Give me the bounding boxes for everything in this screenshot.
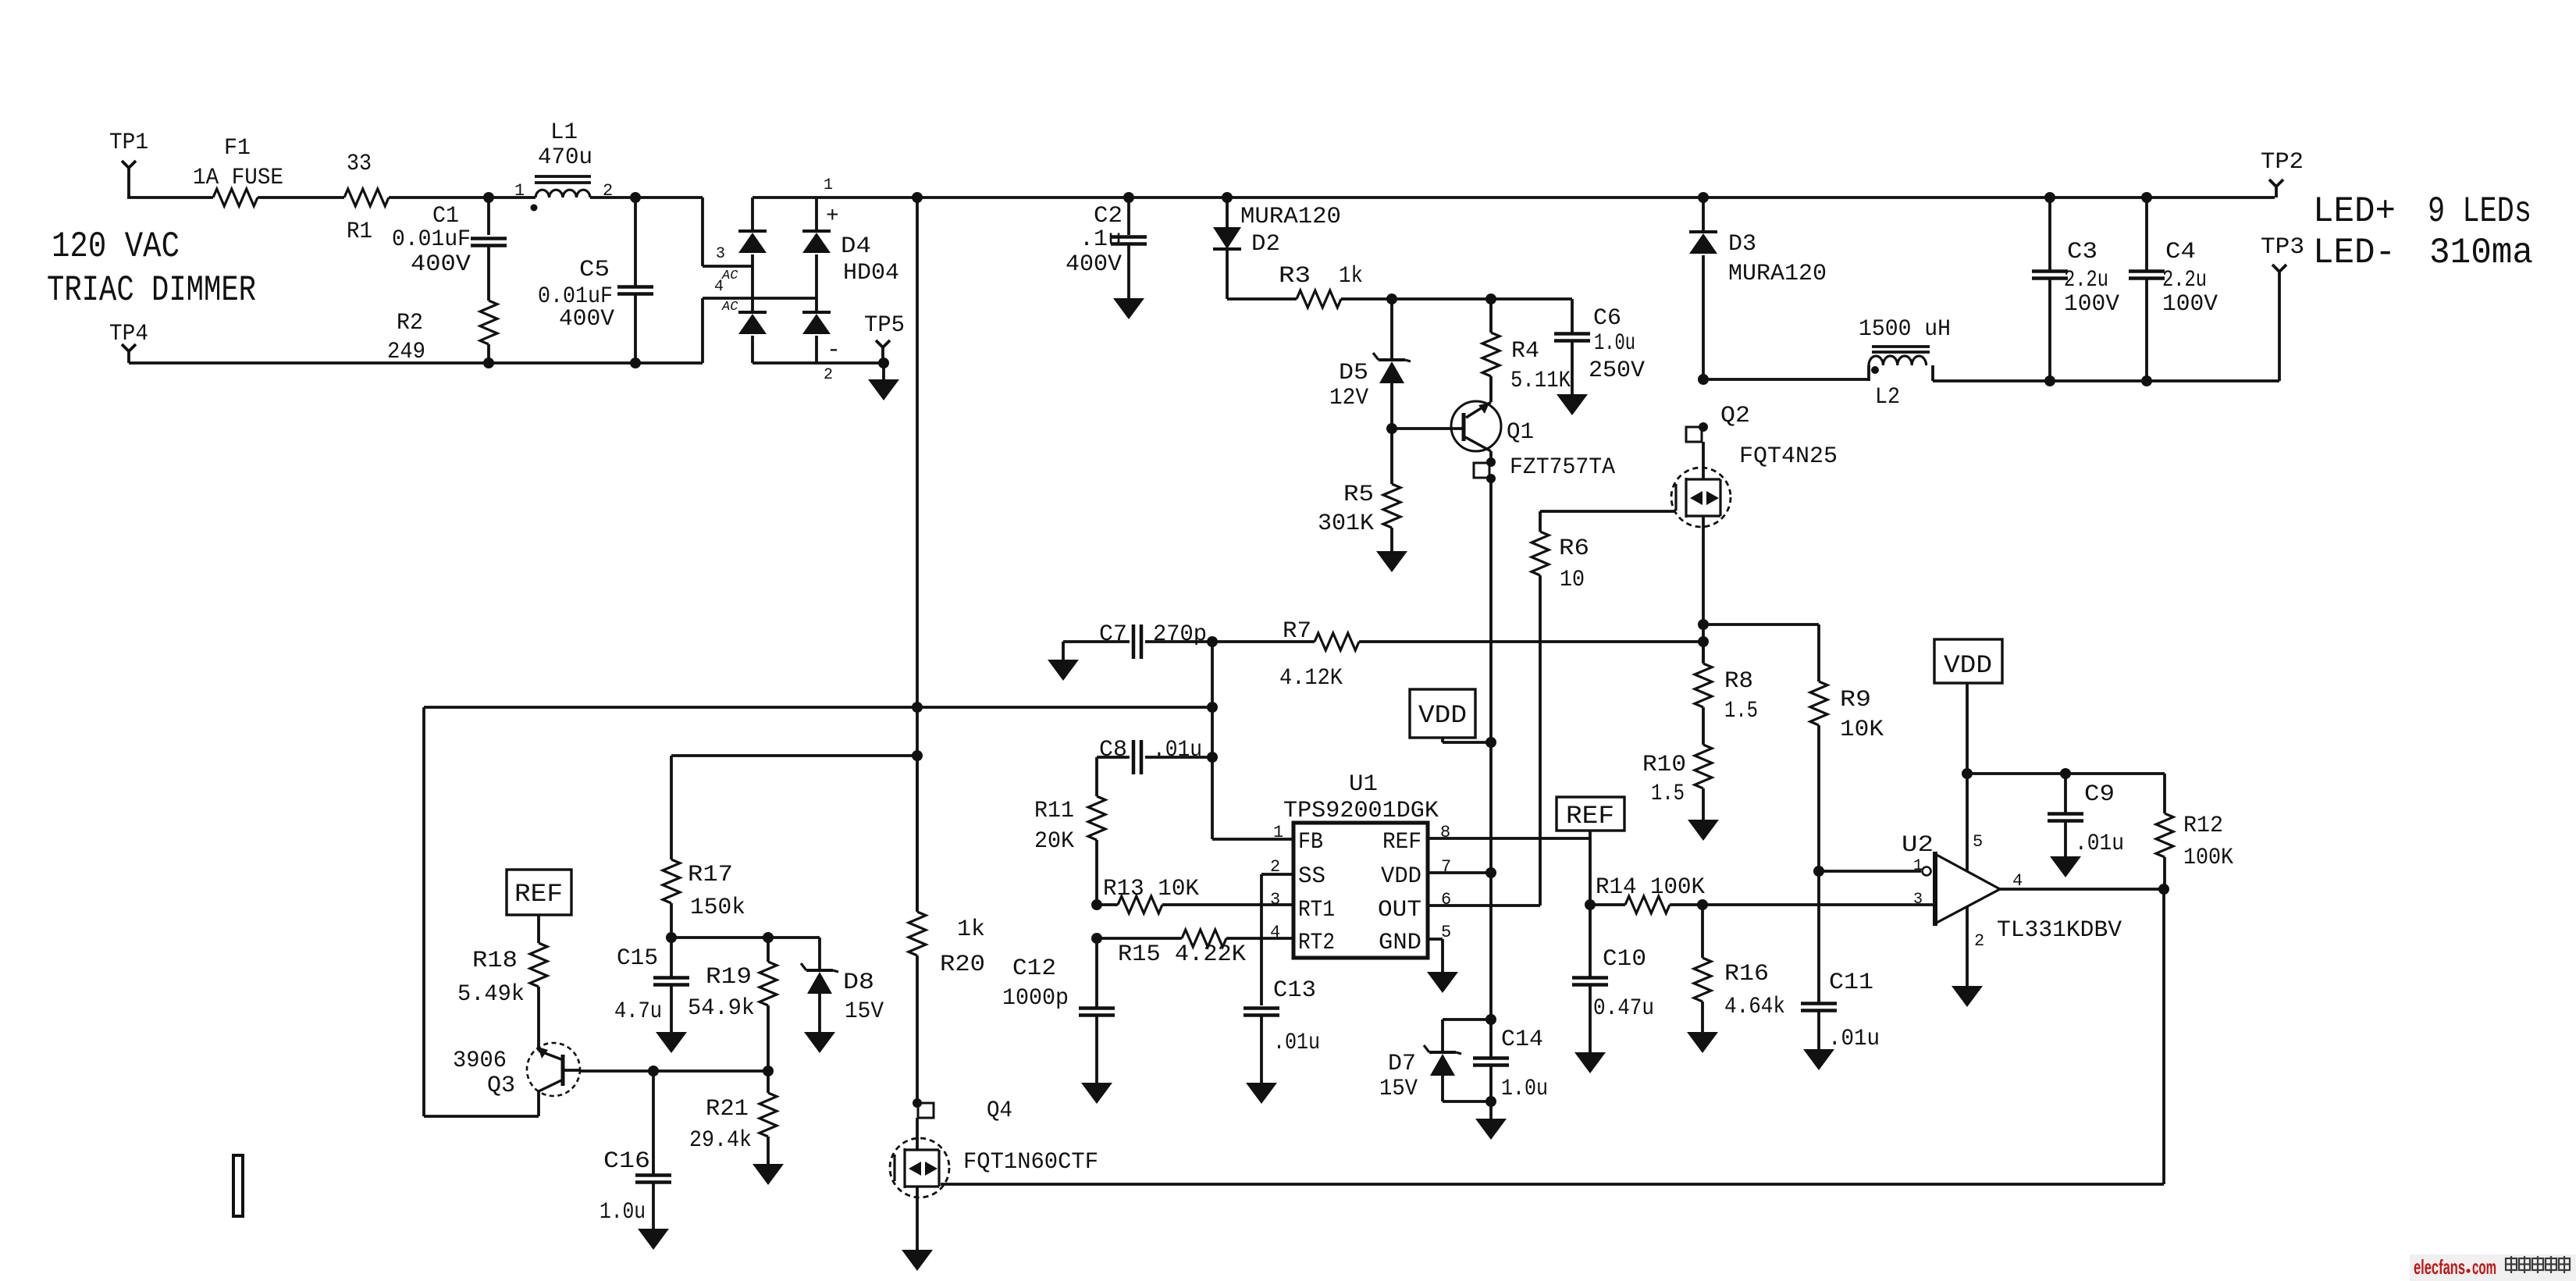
ground below C15 <box>656 1032 687 1053</box>
node FB column / long wire <box>1207 702 1218 713</box>
node D2 top rail <box>1222 192 1233 203</box>
ground below C2 <box>1113 298 1144 319</box>
svg-text:D4: D4 <box>841 233 871 260</box>
svg-text:TP4: TP4 <box>109 321 148 347</box>
svg-text:TP5: TP5 <box>864 312 905 339</box>
resistor R5 <box>1318 429 1400 551</box>
node C4 top rail <box>2141 192 2152 203</box>
test point TP4 <box>109 321 148 363</box>
svg-text:VDD: VDD <box>1418 701 1467 730</box>
wire top rail from bridge to TP2 <box>753 196 2275 199</box>
svg-text:R10: R10 <box>1642 752 1686 778</box>
svg-text:C13: C13 <box>1273 977 1316 1004</box>
svg-text:4.7u: 4.7u <box>614 998 662 1025</box>
svg-text:C11: C11 <box>1829 970 1873 996</box>
resistor R14 100K <box>1590 874 1935 913</box>
node main column / long wire <box>912 702 923 713</box>
svg-text:2.2u: 2.2u <box>2064 267 2108 294</box>
svg-text:R5: R5 <box>1343 482 1374 508</box>
test point TP3 <box>2261 234 2304 381</box>
svg-text:TPS92001DGK: TPS92001DGK <box>1283 798 1439 824</box>
svg-text:C4: C4 <box>2165 239 2196 265</box>
svg-text:Q4: Q4 <box>987 1098 1012 1124</box>
svg-text:400V: 400V <box>1066 251 1122 278</box>
svg-text:R11: R11 <box>1034 798 1074 824</box>
svg-text:FZT757TA: FZT757TA <box>1510 454 1615 481</box>
U1 pin8 REF wire <box>1428 837 1590 840</box>
svg-text:C2: C2 <box>1094 203 1123 230</box>
svg-text:TRIAC DIMMER: TRIAC DIMMER <box>47 270 256 311</box>
svg-text:5.11K: 5.11K <box>1510 368 1571 394</box>
zener diode D5 12V <box>1329 299 1411 429</box>
test point TP1 <box>109 130 148 197</box>
svg-text:10K: 10K <box>1840 717 1884 743</box>
svg-text:100V: 100V <box>2064 291 2119 318</box>
wire R17 tap <box>671 756 917 859</box>
IC U1 TPS92001DGK box <box>1283 771 1439 958</box>
ground at U1 GND <box>1427 972 1458 993</box>
svg-text:20K: 20K <box>1034 828 1074 855</box>
node Q4 gate <box>913 1098 922 1108</box>
svg-text:C12: C12 <box>1012 955 1056 982</box>
resistor R11 20K <box>1034 757 1105 905</box>
svg-text:R16: R16 <box>1724 961 1769 987</box>
svg-text:TP2: TP2 <box>2261 149 2304 176</box>
node R3 right <box>1386 294 1397 304</box>
svg-text:R13 10K: R13 10K <box>1103 876 1199 902</box>
wire R1 to L1 <box>389 196 535 199</box>
svg-text:1: 1 <box>514 181 525 201</box>
svg-text:1: 1 <box>1913 857 1923 875</box>
svg-text:R8: R8 <box>1724 668 1753 695</box>
U1 pin numbers <box>1270 823 1451 942</box>
svg-text:R1: R1 <box>347 219 372 245</box>
U2 output wire <box>2000 888 2164 891</box>
wire Q1 collector column down <box>1489 479 1493 742</box>
svg-text:REF: REF <box>514 880 563 909</box>
VDD box at U1 <box>1410 689 1491 742</box>
svg-text:C6: C6 <box>1593 305 1621 332</box>
svg-text:L2: L2 <box>1875 384 1900 411</box>
svg-text:301K: 301K <box>1318 511 1374 537</box>
svg-text:15V: 15V <box>1379 1076 1418 1102</box>
inductor L2 1500uH <box>1859 316 1951 411</box>
U2 pin2 gnd wire <box>1966 906 1969 986</box>
node main column R17 tap <box>912 750 923 761</box>
resistor R21 29.4k <box>689 1071 777 1164</box>
svg-text:D7: D7 <box>1388 1051 1416 1077</box>
fuse F1 <box>193 135 283 206</box>
svg-text:MURA120: MURA120 <box>1728 261 1827 287</box>
bridge diode D4d (lower right) <box>802 312 831 363</box>
resistor R16 4.64k <box>1694 905 1785 1032</box>
resistor R20 1k <box>909 756 985 1103</box>
svg-text:C1: C1 <box>432 203 459 230</box>
node R17 bottom <box>666 932 677 943</box>
ground below R10 <box>1688 820 1719 841</box>
wire F1 to R1 <box>258 196 344 199</box>
ground below R21 <box>753 1164 784 1185</box>
ground at TP5 <box>868 363 899 400</box>
node R16 top <box>1697 899 1708 910</box>
svg-text:1: 1 <box>1273 823 1283 842</box>
svg-text:C7: C7 <box>1099 621 1127 648</box>
node C7/R7 <box>1207 636 1218 647</box>
capacitor C13 .01u <box>1244 977 1320 1083</box>
bridge diode D4b (upper right) <box>802 231 831 312</box>
svg-text:R15 4.22K: R15 4.22K <box>1118 941 1246 968</box>
node R15 left <box>1091 933 1102 944</box>
test point TP2 <box>2261 149 2304 197</box>
svg-text:100K: 100K <box>2183 845 2233 871</box>
Q4 gate pin square <box>918 1103 934 1118</box>
resistor R6 <box>1532 511 1589 906</box>
ground below Q4 <box>902 1250 933 1271</box>
capacitor C11 .01u <box>1801 871 1880 1052</box>
svg-text:5.49k: 5.49k <box>457 981 525 1008</box>
svg-text:R19: R19 <box>706 964 752 991</box>
svg-text:LED-: LED- <box>2313 233 2396 273</box>
node R2 bottom <box>483 358 494 368</box>
resistor R18 5.49k <box>457 943 547 1044</box>
node R19 bottom <box>763 1066 774 1076</box>
bridge diode D4a (upper left) <box>738 231 767 312</box>
svg-text:4.64k: 4.64k <box>1724 994 1785 1020</box>
svg-text:4.12K: 4.12K <box>1279 665 1343 692</box>
wire REF stem down to R14 <box>1589 838 1592 905</box>
capacitor C12 1000p <box>1002 938 1115 1083</box>
node D3 anode / L2 <box>1698 374 1709 385</box>
resistor R15 4.22K <box>1097 930 1293 968</box>
node C9 top <box>2060 768 2071 779</box>
svg-text:3: 3 <box>1270 890 1280 909</box>
svg-text:3: 3 <box>716 245 725 263</box>
svg-text:270p: 270p <box>1153 621 1207 648</box>
resistor R8 1.5 <box>1695 642 1758 724</box>
node C2 top rail <box>1123 192 1134 203</box>
svg-text:R2: R2 <box>397 310 423 336</box>
ground below R16 <box>1687 1032 1718 1053</box>
capacitor C16 1.0u <box>600 1071 671 1229</box>
svg-text:HD04: HD04 <box>843 260 899 286</box>
svg-text:.01u: .01u <box>1153 737 1202 763</box>
wire top rail left segment <box>127 196 213 199</box>
node C16 top <box>648 1066 659 1076</box>
svg-text:GND: GND <box>1379 930 1421 956</box>
svg-text:250V: 250V <box>1589 358 1645 384</box>
node D7 top <box>1485 1014 1496 1025</box>
svg-text:1500 uH: 1500 uH <box>1859 316 1951 343</box>
wire R9 to U2 pin1 <box>1819 870 1921 873</box>
label LED+ 9 LEDs <box>2313 191 2532 232</box>
diode D2 MURA120 <box>1213 197 1341 299</box>
svg-text:100V: 100V <box>2162 291 2218 318</box>
svg-text:2.2u: 2.2u <box>2162 267 2207 294</box>
svg-text:Q1: Q1 <box>1507 419 1534 446</box>
svg-text:C9: C9 <box>2084 781 2115 808</box>
svg-text:U1: U1 <box>1349 771 1378 798</box>
svg-text:C8: C8 <box>1099 737 1127 763</box>
wire Q3 base row <box>580 1069 768 1073</box>
node main column top <box>912 192 923 203</box>
wire R9 branch <box>1703 624 1819 681</box>
node R9 tap <box>1698 619 1709 630</box>
svg-text:com: com <box>2472 1255 2496 1279</box>
svg-text:33: 33 <box>347 151 372 177</box>
svg-text:R6: R6 <box>1559 536 1589 562</box>
resistor R2 <box>387 301 497 365</box>
ground below C9 <box>2050 856 2081 877</box>
svg-text:9 LEDs: 9 LEDs <box>2428 191 2532 232</box>
node R14 left <box>1585 899 1596 910</box>
wire VDD to C9 R12 <box>1967 772 2165 775</box>
svg-text:Q2: Q2 <box>1720 403 1750 429</box>
node C1 top rail <box>483 192 494 203</box>
svg-text:RT2: RT2 <box>1298 930 1335 956</box>
svg-text:1.5: 1.5 <box>1724 698 1758 724</box>
node Q1 base <box>1386 423 1397 434</box>
svg-text:C14: C14 <box>1501 1027 1543 1053</box>
node R4 top <box>1485 294 1496 304</box>
svg-text:R7: R7 <box>1283 618 1311 645</box>
node R7 to R8 column <box>1698 636 1709 647</box>
svg-text:REF: REF <box>1382 829 1421 856</box>
capacitor C4 <box>2129 197 2218 381</box>
ground below R5 <box>1376 551 1407 572</box>
svg-text:C16: C16 <box>603 1148 650 1175</box>
label 120 VAC TRIAC DIMMER <box>47 226 256 311</box>
svg-text:OUT: OUT <box>1378 897 1421 923</box>
capacitor C8 .01u <box>1097 737 1212 774</box>
svg-text:R12: R12 <box>2183 813 2223 839</box>
svg-text:15V: 15V <box>845 998 884 1025</box>
svg-text:C3: C3 <box>2067 239 2097 265</box>
svg-text:150k: 150k <box>690 895 745 921</box>
node R19 top <box>763 932 774 943</box>
svg-text:2: 2 <box>1974 931 1984 951</box>
resistor R9 10K <box>1810 681 1884 871</box>
U2 pin5 VDD wire <box>1966 774 1969 871</box>
svg-text:1.0u: 1.0u <box>600 1199 646 1226</box>
ground below C6 <box>1557 394 1588 415</box>
resistor R3 <box>1279 263 1363 308</box>
svg-text:R4: R4 <box>1511 338 1539 365</box>
svg-text:TP1: TP1 <box>109 130 148 156</box>
comparator U2 TL331KDBV <box>1902 832 2122 951</box>
resistor R13 10K <box>1097 876 1293 913</box>
svg-text:R18: R18 <box>472 948 518 974</box>
node C5 top rail <box>630 192 641 203</box>
svg-text:+: + <box>826 205 839 229</box>
svg-text:VDD: VDD <box>1381 863 1421 890</box>
U1 pin6 OUT wire <box>1428 904 1540 907</box>
capacitor C1 <box>392 197 507 301</box>
wire AC input to bridge pin 3 <box>703 197 753 266</box>
svg-text:.1u: .1u <box>1080 226 1122 253</box>
svg-text:TL331KDBV: TL331KDBV <box>1997 917 2122 944</box>
svg-text:MURA120: MURA120 <box>1240 204 1341 230</box>
transistor Q3 3906 <box>453 1043 580 1099</box>
svg-text:310ma: 310ma <box>2429 233 2533 273</box>
svg-text:1: 1 <box>824 176 833 194</box>
node C3 top rail <box>2044 192 2055 203</box>
wire L1 to bridge drop <box>590 196 703 199</box>
resistor R17 150k <box>663 859 745 938</box>
svg-text:1k: 1k <box>1339 263 1363 290</box>
svg-text:10: 10 <box>1560 567 1585 593</box>
wire C15 R19 D8 row <box>671 936 820 939</box>
node C3 bottom <box>2044 375 2055 386</box>
ground below C14 <box>1475 1101 1507 1140</box>
svg-text:-: - <box>827 337 841 364</box>
svg-text:FQT4N25: FQT4N25 <box>1739 443 1838 470</box>
capacitor C10 0.47u <box>1572 905 1654 1052</box>
node C8 right <box>1207 752 1218 763</box>
node C4 bottom <box>2141 375 2152 386</box>
svg-text:C15: C15 <box>617 945 658 972</box>
svg-text:.01u: .01u <box>1828 1026 1880 1052</box>
wire main column upper <box>916 197 919 912</box>
U1 pin7 VDD wire <box>1428 871 1491 874</box>
svg-text:1.0u: 1.0u <box>1501 1076 1548 1102</box>
U1 pin2 SS wire <box>1261 874 1293 1005</box>
svg-text:RT1: RT1 <box>1298 897 1335 923</box>
wire long horizontal to left loop <box>424 706 1212 709</box>
svg-text:D8: D8 <box>843 970 874 996</box>
svg-text:1A FUSE: 1A FUSE <box>193 165 283 191</box>
capacitor C6 <box>1554 299 1645 394</box>
svg-text:12V: 12V <box>1329 385 1368 411</box>
label LED- 310ma <box>2313 233 2533 273</box>
wire AC input to bridge pin 4 <box>703 298 817 363</box>
capacitor C15 4.7u <box>614 938 689 1032</box>
decoration bar bottom left <box>233 1155 243 1216</box>
svg-text:0.47u: 0.47u <box>1593 995 1654 1022</box>
svg-text:R3: R3 <box>1279 263 1311 290</box>
wire D5 to Q1 base <box>1392 427 1464 430</box>
svg-text:AC: AC <box>721 269 738 283</box>
Q2 gate pin square <box>1686 422 1708 442</box>
node VDD pin7 <box>1485 867 1496 878</box>
transistor Q4 FQT1N60CTF <box>890 1098 1098 1197</box>
zener diode D7 15V <box>1379 1019 1491 1102</box>
svg-text:1000p: 1000p <box>1002 985 1069 1012</box>
elecfans.com logo <box>2410 1254 2576 1281</box>
transistor Q1 FZT757TA <box>1451 401 1615 481</box>
svg-text:R9: R9 <box>1840 687 1871 713</box>
transistor Q2 FQT4N25 <box>1671 403 1838 527</box>
wire bottom rail left <box>129 361 703 365</box>
svg-text:TP3: TP3 <box>2261 234 2304 261</box>
svg-text:249: 249 <box>387 339 425 365</box>
svg-text:SS: SS <box>1298 863 1325 890</box>
svg-text:C10: C10 <box>1603 946 1646 973</box>
svg-text:3: 3 <box>1913 891 1923 909</box>
svg-text:3906: 3906 <box>453 1048 507 1074</box>
svg-text:D2: D2 <box>1251 231 1280 258</box>
ground below D8 <box>804 1032 835 1053</box>
svg-text:470u: 470u <box>538 144 592 171</box>
node R13 left <box>1091 899 1102 910</box>
svg-text:.01u: .01u <box>1273 1030 1320 1056</box>
svg-text:F1: F1 <box>224 135 251 162</box>
svg-text:R21: R21 <box>706 1096 749 1123</box>
wire LED- rail <box>1933 379 2279 383</box>
resistor R4 <box>1482 299 1571 402</box>
ground below C12 <box>1081 1083 1112 1104</box>
svg-text:FQT1N60CTF: FQT1N60CTF <box>963 1149 1098 1176</box>
node D3 top rail <box>1698 192 1709 203</box>
REF box left <box>507 870 571 943</box>
wire U2 output feedback down <box>2162 889 2165 1184</box>
node C5 bottom <box>630 358 641 368</box>
svg-text:29.4k: 29.4k <box>689 1127 752 1154</box>
Q1 package pin square <box>1474 451 1496 483</box>
test point TP5 <box>864 312 905 363</box>
svg-text:R20: R20 <box>940 952 985 978</box>
svg-text:0.01uF: 0.01uF <box>392 226 471 253</box>
capacitor C5 <box>538 197 653 363</box>
wire VDD column to D7 node <box>1489 873 1493 1019</box>
node VDD U2 wire <box>1962 768 1973 779</box>
node U2 output <box>2158 884 2169 895</box>
resistor R19 54.9k <box>688 938 777 1071</box>
resistor R7 4.12K <box>1212 618 1704 692</box>
inductor L1 <box>514 119 613 212</box>
resistor R12 100K <box>2156 774 2233 889</box>
ground below U2 <box>1952 986 1983 1007</box>
svg-text:LED+: LED+ <box>2313 191 2396 232</box>
svg-text:L1: L1 <box>550 119 578 146</box>
resistor R10 1.5 <box>1642 707 1712 820</box>
wire FB column <box>1212 642 1293 839</box>
wire R3 node to R4/C6 <box>1392 297 1572 301</box>
capacitor C3 <box>2032 197 2119 381</box>
wire Q4 drain to U2 output <box>941 1183 2164 1186</box>
node C14 bottom <box>1485 1096 1496 1107</box>
svg-text:400V: 400V <box>411 251 471 278</box>
U1 pin5 GND wire <box>1428 939 1443 972</box>
capacitor C9 .01u <box>2048 774 2124 857</box>
zener diode D8 15V <box>801 938 884 1032</box>
svg-text:1.5: 1.5 <box>1651 781 1685 807</box>
wire Q4 source to ground <box>916 1197 919 1250</box>
wire D2 to R3 <box>1227 297 1297 301</box>
ground below C16 <box>638 1229 669 1250</box>
wire R3 to node <box>1341 297 1392 301</box>
svg-text:54.9k: 54.9k <box>688 995 755 1022</box>
wire left loop <box>424 707 539 1116</box>
ground at C7 left <box>1048 642 1079 681</box>
svg-text:.01u: .01u <box>2075 831 2124 857</box>
svg-text:VDD: VDD <box>1944 651 1992 680</box>
bridge rectifier D4 top wire <box>753 197 817 231</box>
svg-text:R17: R17 <box>688 862 733 888</box>
diode D3 MURA120 <box>1689 197 1827 379</box>
node VDD stub <box>1485 737 1496 748</box>
VDD box at U2 <box>1934 639 2002 774</box>
capacitor C7 270p <box>1063 621 1212 659</box>
ground below C11 <box>1803 1049 1834 1070</box>
label FZT/gate wire Q2 <box>1540 510 1676 513</box>
bridge diode D4c (lower left) <box>738 312 767 363</box>
capacitor C14 1.0u <box>1473 1019 1548 1102</box>
svg-text:U2: U2 <box>1902 832 1934 859</box>
svg-text:FB: FB <box>1298 829 1323 856</box>
svg-text:1k: 1k <box>957 916 985 943</box>
svg-text:AC: AC <box>721 300 738 315</box>
resistor R1 <box>344 151 389 245</box>
